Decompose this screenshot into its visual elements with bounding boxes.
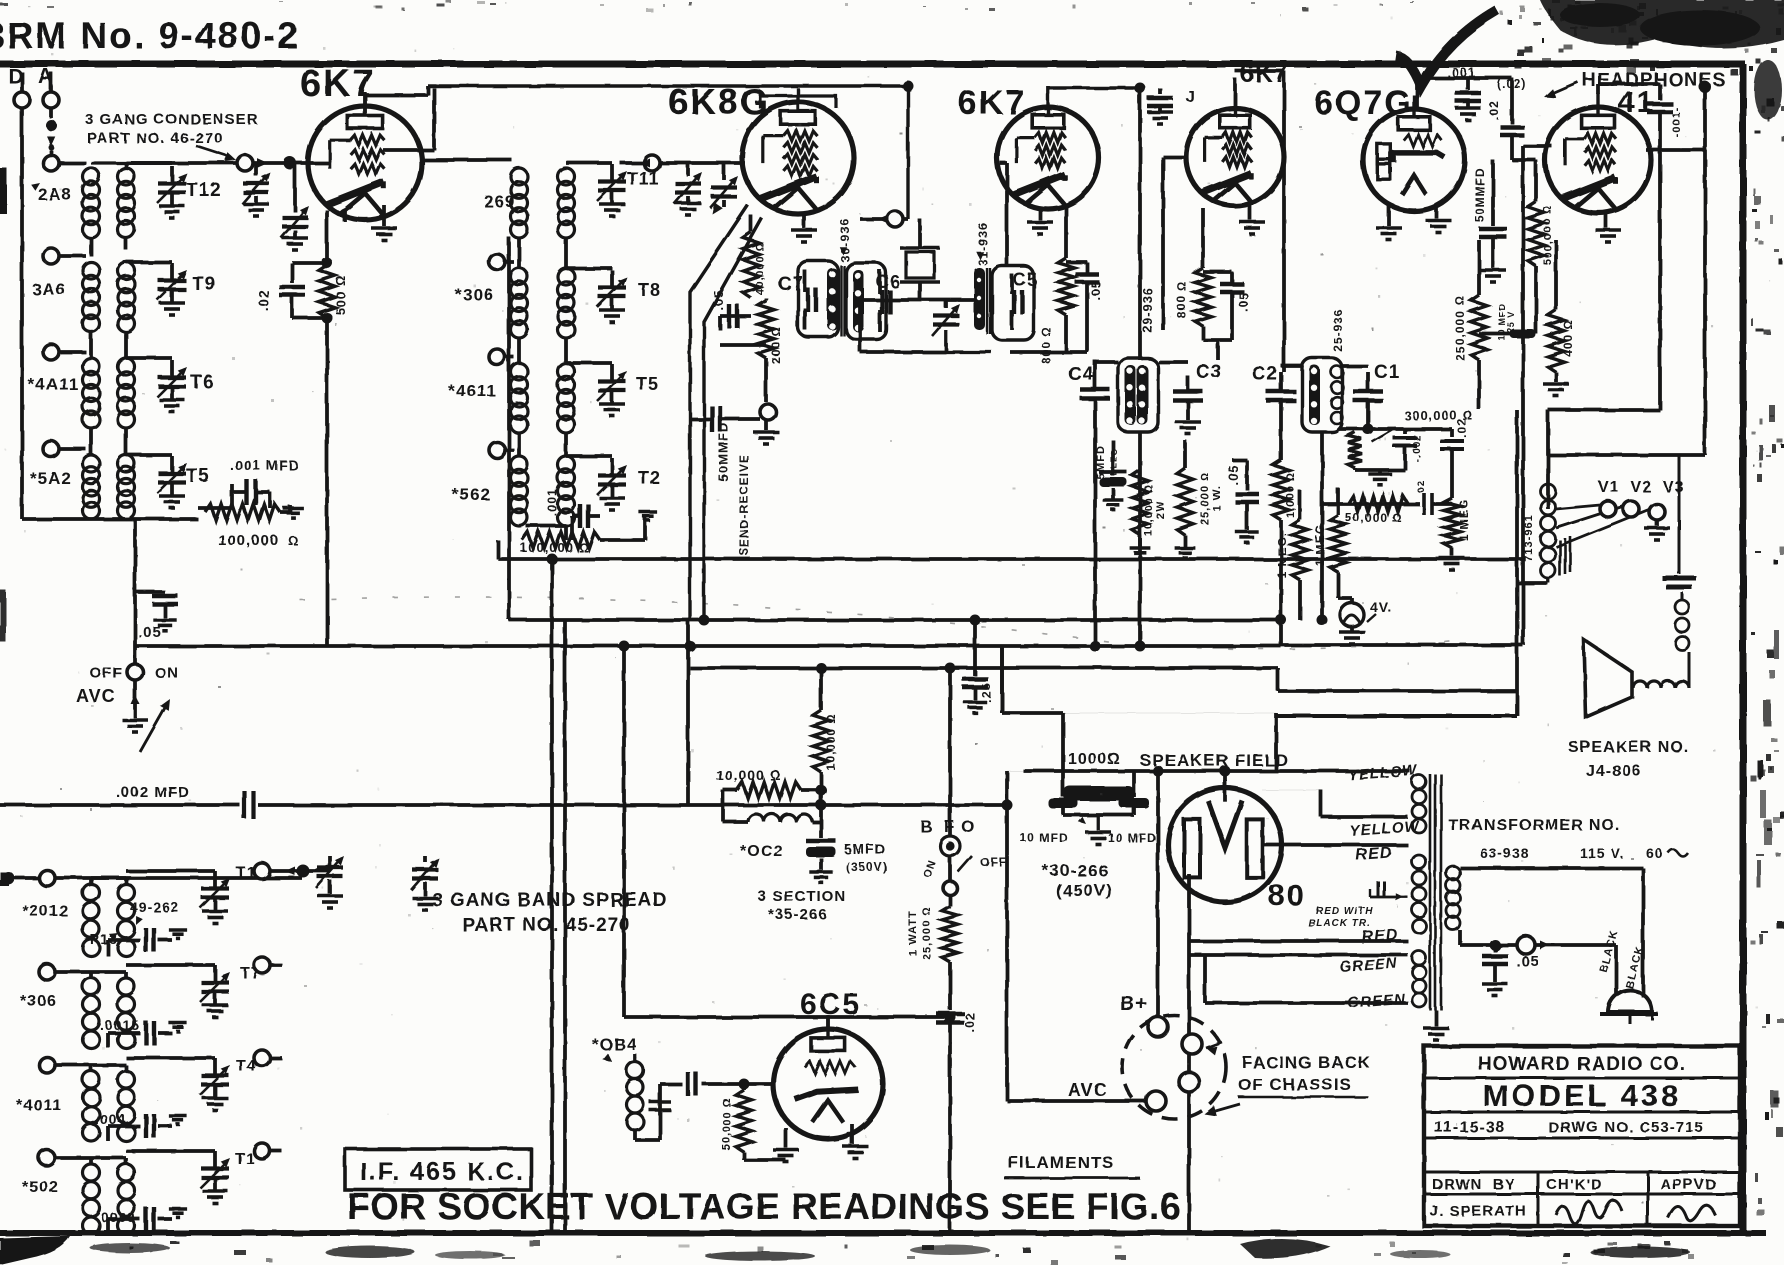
title row model <box>1424 1078 1740 1113</box>
coil sec3 primary <box>83 358 100 428</box>
svg-text:FACING BACK: FACING BACK <box>1242 1053 1371 1072</box>
label yellow 1 <box>1347 762 1419 784</box>
tube 6K7 third <box>1186 94 1284 206</box>
svg-text:*4011: *4011 <box>16 1097 62 1114</box>
riser x950 <box>948 668 952 836</box>
bs varcap 1 <box>303 856 344 908</box>
antenna lead dots <box>43 108 59 171</box>
label transformer no <box>1448 817 1620 834</box>
svg-text:.004: .004 <box>95 1111 126 1127</box>
coil sec4 secondary <box>118 455 135 519</box>
cap 50MMFD <box>691 404 779 444</box>
svg-text:SEND-RECEIVE: SEND-RECEIVE <box>737 454 751 556</box>
label black 2 <box>1624 945 1647 990</box>
trimmer T6 <box>126 358 187 412</box>
6C5 grid line <box>624 1012 956 1023</box>
cap .004 <box>95 1111 187 1141</box>
bs coil1 secondary <box>118 884 135 956</box>
power transformer core <box>1430 774 1441 1010</box>
svg-text:.001 MFD: .001 MFD <box>230 457 299 473</box>
svg-text:YELLOW: YELLOW <box>1347 762 1419 784</box>
svg-text:.02: .02 <box>1455 418 1469 438</box>
6C5 plate lead <box>826 1017 830 1029</box>
IF can C5 coil <box>974 268 985 330</box>
svg-text:40,000 Ω: 40,000 Ω <box>754 241 766 294</box>
can C4C3 links <box>1095 362 1188 646</box>
svg-text:269: 269 <box>484 192 515 211</box>
col2 sec1 primary <box>511 168 528 238</box>
svg-text:B: B <box>920 817 933 836</box>
socket pin fil <box>1179 1072 1199 1092</box>
green wire 1 <box>1189 941 1408 1079</box>
svg-text:115 V.: 115 V. <box>1580 845 1624 861</box>
tube 6K7 second label <box>958 84 1026 122</box>
svg-text:1 W.: 1 W. <box>1211 485 1223 511</box>
svg-text:P13: P13 <box>90 931 118 947</box>
svg-text:4V.: 4V. <box>1370 599 1393 615</box>
cap C2 <box>1252 364 1296 430</box>
svg-text:GREEN: GREEN <box>1339 955 1399 976</box>
bfo terminal <box>860 81 914 228</box>
speaker cone <box>1584 640 1632 717</box>
col2 sec1 secondary <box>558 168 575 238</box>
label AVC socket <box>1068 1080 1108 1100</box>
cap .001 MFD col1 <box>198 457 299 508</box>
svg-text:3 SECTION: 3 SECTION <box>758 888 846 905</box>
label 562 <box>452 485 491 504</box>
label 2012 <box>22 903 69 920</box>
svg-text:ON: ON <box>155 665 180 682</box>
svg-text:*4611: *4611 <box>448 381 497 400</box>
6C5 grounds <box>773 1124 868 1162</box>
speaker series cap <box>1662 455 1696 587</box>
tube 6K8G label <box>668 81 770 122</box>
label red 1 <box>1355 844 1393 864</box>
col2 wire top <box>422 158 512 162</box>
svg-text:MODEL 438: MODEL 438 <box>1483 1078 1682 1113</box>
label 4611 <box>448 381 497 400</box>
label red-black <box>1308 906 1373 929</box>
label green 2 <box>1347 991 1407 1012</box>
bs varcap 2 <box>411 856 439 910</box>
tube1 cathode network <box>279 210 335 646</box>
tube 41 <box>1545 93 1651 213</box>
svg-text:BLACK TR.: BLACK TR. <box>1308 918 1371 929</box>
elec 10MFD 25V <box>1479 303 1536 341</box>
coil sec2 primary <box>83 262 100 332</box>
label 5A2 <box>30 469 72 488</box>
tube 6K7 first label <box>300 63 376 105</box>
label green 1 <box>1339 955 1399 976</box>
primary top wire <box>1460 868 1643 997</box>
speaker field frame <box>1002 646 1276 771</box>
svg-text:*OB4: *OB4 <box>592 1035 638 1054</box>
af node wire <box>1339 424 1452 435</box>
6K8G grid wire <box>660 161 745 165</box>
6K7c grid wire <box>1163 157 1188 330</box>
pilot lamp 4V <box>1338 598 1393 644</box>
speaker field choke <box>1063 751 1135 801</box>
svg-text:OFF: OFF <box>90 665 123 682</box>
svg-text:6K7: 6K7 <box>1240 60 1289 88</box>
svg-text:.05: .05 <box>1236 291 1251 312</box>
riser x624 <box>622 646 626 1017</box>
b+ riser <box>1153 766 1164 1021</box>
signature 1 <box>1556 1200 1622 1224</box>
6K7b cathode resistor 800 <box>1039 206 1074 364</box>
svg-text:C1: C1 <box>1374 362 1400 383</box>
svg-text:F O: F O <box>944 817 975 836</box>
svg-text:3RM No. 9-480-2: 3RM No. 9-480-2 <box>0 15 300 56</box>
transformer secondary yellow <box>1412 775 1426 833</box>
6K7b plate wire <box>1048 86 1140 94</box>
col2 vertical right <box>509 237 566 620</box>
svg-text:.001: .001 <box>1447 65 1476 80</box>
red wire 2 <box>1189 874 1408 941</box>
svg-text:T5: T5 <box>186 466 210 487</box>
green wire 2 <box>1205 955 1408 1003</box>
cap .05 left <box>135 519 178 641</box>
label 4A11 <box>28 375 79 394</box>
tube 6K7 second <box>997 93 1099 209</box>
trimmer T11 <box>566 163 627 216</box>
title row names <box>1430 1203 1527 1220</box>
col2 sec4 primary <box>511 456 528 526</box>
can C5 core <box>987 268 990 334</box>
label T9 <box>192 274 216 295</box>
svg-text:C2: C2 <box>1252 364 1278 385</box>
svg-text:60: 60 <box>1646 845 1664 861</box>
coil sec3 secondary <box>118 358 135 428</box>
svg-text:J: J <box>1186 89 1196 106</box>
osc trimmer b <box>710 163 738 214</box>
terminal D label <box>8 65 24 88</box>
col2 top terminal <box>620 155 660 171</box>
trimmer T9 <box>126 262 187 315</box>
svg-text:.02: .02 <box>1487 100 1501 120</box>
label black 1 <box>1598 929 1621 974</box>
output coil 713-961 <box>1523 484 1570 578</box>
resistor 200 <box>758 298 783 402</box>
tube 80 <box>1168 780 1282 902</box>
svg-text:FOR SOCKET VOLTAGE READINGS SE: FOR SOCKET VOLTAGE READINGS SEE FIG.6 <box>347 1186 1181 1227</box>
title row howard <box>1424 1054 1740 1078</box>
svg-text:63-938: 63-938 <box>1480 845 1530 861</box>
svg-text:.002 MFD: .002 MFD <box>116 784 190 801</box>
cap .02 bfo <box>936 1011 977 1233</box>
resistor 10000 2W <box>1130 470 1167 558</box>
svg-text:*4A11: *4A11 <box>28 375 79 394</box>
label 502 <box>22 1179 59 1196</box>
resistor 25000 1watt <box>907 895 958 1010</box>
svg-text:25-936: 25-936 <box>1331 308 1345 351</box>
svg-text:*502: *502 <box>22 1179 59 1196</box>
b+ top bus <box>1023 769 1410 773</box>
cap .001 top <box>1447 65 1481 120</box>
coil joins col1 sec1 <box>91 163 126 256</box>
label 30-936 <box>838 218 852 261</box>
label T5 <box>186 466 210 487</box>
resistor 1MEG a <box>1275 490 1308 620</box>
svg-text:50,000 Ω: 50,000 Ω <box>721 1097 733 1150</box>
svg-text:5MFD: 5MFD <box>844 841 886 857</box>
avc ground <box>122 720 148 732</box>
svg-text:49-262: 49-262 <box>130 899 180 915</box>
svg-text:50,000 Ω: 50,000 Ω <box>1345 511 1402 525</box>
col2 terminal row2 <box>489 254 514 270</box>
svg-text:25,000 Ω: 25,000 Ω <box>921 906 933 959</box>
6Q7G grounds <box>1376 205 1451 240</box>
red wire 1 <box>1262 843 1408 847</box>
bfo labels <box>920 817 975 836</box>
svg-text:HOWARD RADIO CO.: HOWARD RADIO CO. <box>1478 1054 1686 1075</box>
can C2C1 links <box>1281 366 1368 620</box>
headphone cap <box>1647 84 1683 410</box>
label yellow 2 <box>1349 818 1421 840</box>
svg-text:.02: .02 <box>962 1011 977 1032</box>
title row date <box>1424 1119 1740 1138</box>
label T6 <box>190 372 214 393</box>
transformer primary <box>1446 866 1460 930</box>
terminal D <box>14 72 30 108</box>
svg-text:2A8: 2A8 <box>38 185 72 204</box>
bs row wire <box>2 870 303 886</box>
cap .02 top <box>1487 77 1527 160</box>
col2 sec3 secondary <box>558 363 575 433</box>
bus D y668 <box>690 668 1517 691</box>
svg-text:400 Ω: 400 Ω <box>1561 319 1575 357</box>
svg-text:*5A2: *5A2 <box>30 469 72 488</box>
cap .0009 <box>96 1207 187 1234</box>
svg-text:I.F. 465 K.C.: I.F. 465 K.C. <box>360 1158 525 1186</box>
resistor 250000 <box>1453 240 1487 410</box>
svg-text:.05: .05 <box>1226 464 1241 485</box>
6Q7G plate lead <box>1417 70 1512 108</box>
svg-text:6K8G: 6K8G <box>668 81 770 122</box>
6K7c plate link <box>1235 71 1284 372</box>
label 50MMFD <box>716 422 731 481</box>
tube1 plate wire <box>365 86 908 150</box>
svg-text:1 MEG.: 1 MEG. <box>1275 532 1289 579</box>
resistor 10000 vert <box>813 706 838 790</box>
yellow wire 2 <box>1262 790 1408 817</box>
svg-text:(450V): (450V) <box>1056 881 1113 900</box>
transformer ground <box>1423 1010 1449 1040</box>
tuning cap 1 <box>242 163 270 216</box>
label SEND-RECEIVE <box>737 454 751 556</box>
riser x552 <box>550 559 554 1233</box>
col2 sec3 primary <box>511 363 528 433</box>
tube 41 label <box>1618 86 1655 119</box>
tube 6K7 third label <box>1240 60 1289 88</box>
bus C y646 <box>135 644 1281 648</box>
svg-text:3 GANG BAND SPREAD: 3 GANG BAND SPREAD <box>432 890 667 911</box>
terminal A <box>43 72 59 108</box>
label 4011 <box>16 1097 62 1114</box>
cap C1 <box>1353 362 1400 429</box>
svg-text:DRWG NO. C53-715: DRWG NO. C53-715 <box>1548 1119 1704 1136</box>
bus junction dots <box>547 554 1328 674</box>
label 306 bs <box>20 993 57 1010</box>
svg-text:T6: T6 <box>190 372 214 393</box>
resistor 1MEG b <box>1313 488 1346 598</box>
top border line <box>0 61 1745 68</box>
cap .25 <box>962 620 993 713</box>
svg-text:.0015: .0015 <box>100 1017 140 1033</box>
resistor 1000 <box>1273 430 1297 620</box>
cap 50MMFD right <box>1473 160 1507 282</box>
svg-text:Ω: Ω <box>288 533 299 548</box>
label filaments <box>1004 1153 1140 1178</box>
cap C7 <box>778 270 816 330</box>
col1 bottom bus <box>22 332 198 519</box>
label 29-936 <box>1140 287 1155 333</box>
speaker voice coil <box>1633 652 1689 688</box>
label 3 section <box>758 888 846 923</box>
cap .0015 <box>100 1017 187 1048</box>
label speaker field <box>1140 751 1289 770</box>
svg-text:10,000 Ω: 10,000 Ω <box>824 713 838 770</box>
svg-text:100,000 Ω: 100,000 Ω <box>520 540 590 555</box>
svg-text:CH'K'D: CH'K'D <box>1546 1176 1602 1193</box>
41 screen wire <box>1646 148 1705 152</box>
transformer secondary green <box>1412 951 1426 1007</box>
tube 6K7 first <box>308 92 422 220</box>
80 filament top <box>1220 766 1231 791</box>
trimmer T2 <box>566 456 627 510</box>
svg-text:(350V): (350V) <box>846 860 888 874</box>
cap .002 <box>1393 429 1423 470</box>
svg-text:50MMFD: 50MMFD <box>1473 167 1487 222</box>
V terminals <box>1598 479 1685 540</box>
label .02 tube1 <box>255 289 271 311</box>
svg-text:C5: C5 <box>1013 270 1038 290</box>
svg-text:.02: .02 <box>255 289 271 311</box>
field ground <box>1063 815 1134 844</box>
tube 6Q7G <box>1363 95 1465 211</box>
terminal A label <box>38 65 54 88</box>
bus B y620 <box>509 620 1523 645</box>
svg-text:.25: .25 <box>979 682 993 702</box>
avc wire <box>133 592 137 664</box>
wire D down <box>20 108 24 519</box>
label B+ <box>1120 993 1148 1015</box>
avc wire bottom <box>1007 1099 1146 1103</box>
svg-text:.0009: .0009 <box>96 1209 136 1225</box>
ac switch <box>1517 936 1550 954</box>
svg-text:50MMFD: 50MMFD <box>716 422 731 481</box>
svg-text:100,000: 100,000 <box>218 532 279 549</box>
label 306 col2 <box>455 285 494 304</box>
headphones arrow <box>1544 81 1711 98</box>
terminal row4 col1 <box>43 441 86 457</box>
svg-text:*30-266: *30-266 <box>1042 861 1109 880</box>
svg-text:T5: T5 <box>636 374 659 394</box>
svg-text:SPEAKER FIELD: SPEAKER FIELD <box>1140 751 1289 770</box>
svg-text:J. SPERATH: J. SPERATH <box>1430 1203 1527 1220</box>
can C7C6 core <box>841 265 844 336</box>
osc trimmer a <box>674 163 702 215</box>
label 500ohm tube1 <box>333 275 348 315</box>
svg-text:V1 V2 V3: V1 V2 V3 <box>1598 479 1685 496</box>
col2 terminal row3 <box>489 349 514 365</box>
bs right terminal <box>254 863 310 879</box>
col2 bottom cap 001 <box>526 488 600 540</box>
label facing back <box>1238 1053 1371 1097</box>
avc switch <box>76 664 180 706</box>
svg-text:T9: T9 <box>192 274 216 295</box>
terminal row2 col1 <box>43 248 86 264</box>
riser x688 <box>686 620 690 805</box>
label 3A6 <box>32 280 66 299</box>
col2 sec4 secondary <box>558 456 575 526</box>
svg-text:*OC2: *OC2 <box>740 843 783 860</box>
6K8G ground <box>791 214 817 242</box>
svg-text:C3: C3 <box>1196 362 1222 383</box>
cap 5MFD elec <box>1095 440 1127 510</box>
svg-text:800 Ω: 800 Ω <box>1175 281 1189 319</box>
svg-text:2W: 2W <box>1155 501 1167 520</box>
label 31-936 <box>976 222 990 265</box>
svg-text:30-936: 30-936 <box>838 218 852 261</box>
label 2A8 <box>31 183 72 204</box>
ant coil T1 primary <box>83 168 100 238</box>
svg-text:10,000 Ω: 10,000 Ω <box>1143 483 1155 536</box>
right border line <box>1740 64 1747 1232</box>
svg-text:T2: T2 <box>638 468 661 488</box>
tube 6Q7G label <box>1314 84 1413 122</box>
svg-text:YELLOW: YELLOW <box>1349 818 1421 840</box>
cap 5MFD 350V <box>806 822 888 883</box>
title row blank <box>1424 1171 1740 1174</box>
center tap cap <box>1370 881 1408 901</box>
socket pin right <box>1182 1034 1222 1055</box>
resistor 50000 af <box>1322 480 1452 525</box>
field cap right <box>1108 771 1157 845</box>
facing back arrow <box>1204 1104 1240 1116</box>
coil sec2 secondary <box>118 262 135 332</box>
resistor 500000 <box>1528 160 1554 334</box>
label 49-262 <box>130 899 180 925</box>
svg-text:OFF: OFF <box>980 855 1007 869</box>
cap .002 MFD <box>116 784 254 819</box>
svg-text:3 GANG CONDENSER: 3 GANG CONDENSER <box>85 111 259 128</box>
filament drop <box>1187 1092 1191 1233</box>
label T11 <box>627 169 660 189</box>
riser x821 <box>819 668 823 706</box>
41 plate lead <box>1598 84 1660 94</box>
label band spread <box>432 890 667 936</box>
osc caps 6C5 <box>649 1072 744 1140</box>
cap C4 <box>1068 360 1110 646</box>
label 100000 col1 <box>218 532 299 549</box>
col2 resistor 100000 <box>520 512 657 555</box>
trimmer T8 <box>566 268 627 322</box>
label T2 <box>638 468 661 488</box>
svg-text:B+: B+ <box>1120 993 1148 1015</box>
svg-text:1000Ω: 1000Ω <box>1068 751 1121 768</box>
resistor 50000 osc <box>721 1079 786 1161</box>
title block frame <box>1424 1046 1740 1226</box>
IF can C6 <box>846 263 886 339</box>
svg-text:1 MEG: 1 MEG <box>1457 499 1471 541</box>
resistor 800 6K7c <box>1175 208 1211 340</box>
bus A y559 <box>498 540 1523 559</box>
trimmer T5b <box>566 363 627 416</box>
bus 002 line <box>0 803 1007 807</box>
resistor 400 <box>1543 240 1575 396</box>
socket pin B+ <box>1148 1017 1168 1037</box>
